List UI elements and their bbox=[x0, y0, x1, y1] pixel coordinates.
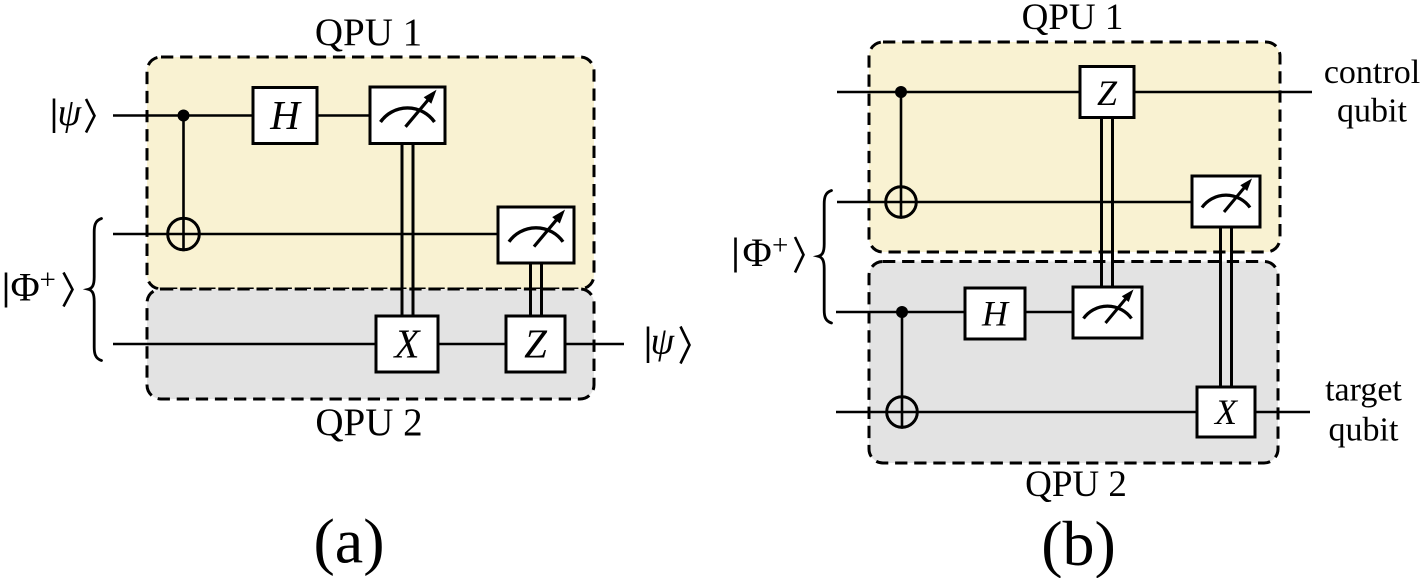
caption (b) bbox=[1041, 508, 1116, 578]
wire q2 (b) bbox=[836, 311, 1073, 314]
CNOT2 vertical wire (b) bbox=[901, 312, 904, 429]
svg-text:Z: Z bbox=[1097, 73, 1118, 113]
gate H (a) bbox=[253, 88, 317, 144]
svg-text:(b): (b) bbox=[1041, 508, 1116, 578]
brace for |Phi+> (b) bbox=[818, 191, 831, 324]
gate Z (a) bbox=[506, 316, 565, 372]
measurement M2 (b) bbox=[1073, 287, 1142, 338]
classical double wire M1 to X (b) bbox=[1221, 227, 1232, 387]
label QPU 1 (a) bbox=[315, 11, 422, 54]
svg-text:QPU 1: QPU 1 bbox=[1022, 0, 1124, 38]
ket |psi> output (a) bbox=[648, 321, 690, 364]
svg-text:QPU 2: QPU 2 bbox=[315, 401, 422, 444]
QPU 2 region (a) bbox=[147, 289, 594, 399]
wire q0 (b) bbox=[837, 91, 1312, 94]
label QPU 1 (b) bbox=[1022, 0, 1124, 38]
CNOT target (a) bbox=[168, 218, 200, 250]
wire q0 (a) bbox=[113, 114, 370, 117]
CNOT2 target (b) bbox=[887, 397, 918, 428]
classical double wire M1 to X (a) bbox=[402, 144, 413, 317]
label target qubit bbox=[1325, 372, 1402, 449]
CNOT vertical wire (a) bbox=[182, 116, 185, 252]
svg-text:+: + bbox=[772, 230, 788, 262]
svg-text:Z: Z bbox=[524, 321, 548, 367]
measurement M1 (a) bbox=[370, 87, 445, 144]
classical double wire Z to M2 (b) bbox=[1102, 116, 1113, 287]
svg-text:qubit: qubit bbox=[1329, 412, 1399, 449]
ket |Phi+> (a) bbox=[6, 264, 73, 310]
measurement M2 (a) bbox=[498, 207, 574, 263]
label control qubit bbox=[1324, 54, 1420, 130]
wire q3 (b) bbox=[836, 411, 1310, 414]
CNOT2 control dot (b) bbox=[896, 306, 908, 318]
QPU 1 region (b) bbox=[869, 42, 1280, 252]
svg-text:ψ: ψ bbox=[58, 92, 83, 134]
CNOT1 control dot (b) bbox=[895, 86, 907, 98]
svg-text:ψ: ψ bbox=[651, 321, 676, 363]
ket |psi> input (a) bbox=[54, 92, 95, 134]
svg-text:Φ: Φ bbox=[11, 265, 40, 310]
svg-text:H: H bbox=[269, 92, 302, 138]
label QPU 2 (b) bbox=[1025, 464, 1127, 505]
svg-text:X: X bbox=[392, 321, 421, 367]
svg-text:control: control bbox=[1324, 54, 1420, 91]
svg-text:(a): (a) bbox=[313, 506, 384, 577]
classical double wire M2 to Z (a) bbox=[531, 263, 542, 316]
svg-text:H: H bbox=[981, 294, 1010, 334]
CNOT1 vertical wire (b) bbox=[900, 92, 903, 219]
wire q1 (b) bbox=[837, 201, 1192, 204]
label QPU 2 (a) bbox=[315, 401, 422, 444]
ket |Phi+> (b) bbox=[736, 230, 804, 276]
svg-text:QPU 2: QPU 2 bbox=[1025, 464, 1127, 505]
CNOT control dot (a) bbox=[178, 110, 190, 122]
svg-text:+: + bbox=[40, 264, 56, 296]
gate X (a) bbox=[376, 316, 438, 372]
svg-text:X: X bbox=[1213, 392, 1239, 432]
measurement M1 (b) bbox=[1192, 176, 1260, 227]
gate H (b) bbox=[965, 288, 1025, 339]
wire q1 (a) bbox=[113, 233, 498, 236]
svg-text:target: target bbox=[1325, 372, 1402, 409]
CNOT1 target (b) bbox=[886, 187, 917, 218]
svg-text:Φ: Φ bbox=[743, 230, 772, 275]
gate Z (b) bbox=[1080, 67, 1134, 118]
caption (a) bbox=[313, 506, 384, 577]
svg-text:qubit: qubit bbox=[1337, 93, 1407, 130]
QPU 1 region (a) bbox=[147, 57, 594, 289]
brace for |Phi+> (a) bbox=[88, 219, 101, 361]
svg-text:QPU 1: QPU 1 bbox=[315, 11, 422, 54]
wire q2 (a) bbox=[113, 343, 624, 346]
gate X (b) bbox=[1197, 387, 1255, 437]
QPU 2 region (b) bbox=[869, 262, 1278, 464]
